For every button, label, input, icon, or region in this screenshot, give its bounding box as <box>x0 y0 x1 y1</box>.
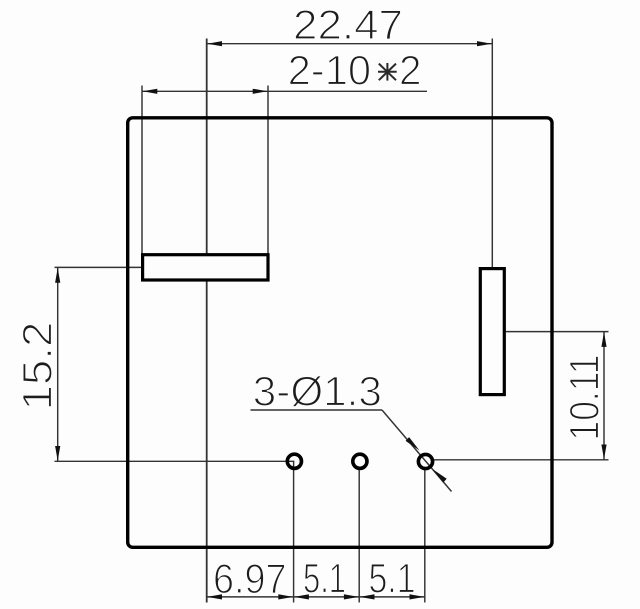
svg-text:2-10: 2-10 <box>288 47 372 94</box>
arrow 22.47 left <box>207 41 222 46</box>
dimension line 10.11 vertical <box>603 332 605 460</box>
svg-text:2: 2 <box>399 47 422 94</box>
extension line right of 22.47 <box>491 39 493 269</box>
arrow 22.47 right <box>477 41 492 46</box>
arrow 5.1b right <box>410 594 425 599</box>
right slot 2x10 <box>480 269 504 395</box>
dimension line 15.2 vertical <box>57 267 59 461</box>
leader diagonal through hole 3 <box>382 410 452 492</box>
extension line below hole 3 <box>424 470 426 603</box>
left slot 10x2 <box>143 255 268 280</box>
arrowheads <box>55 41 607 599</box>
hole 2 <box>353 454 367 468</box>
arrow 5.1b left <box>360 594 375 599</box>
svg-text:6.97: 6.97 <box>213 555 287 602</box>
arrow 15.2 bottom <box>55 446 60 461</box>
bottom dimension line 6.97 / 5.1 / 5.1 <box>207 596 425 598</box>
dimension line 22.47 <box>207 43 493 45</box>
extension line 15.2 top <box>55 266 143 268</box>
extension line 15.2 bottom / hole row line <box>55 460 295 462</box>
extension line 10.11 top <box>504 331 608 333</box>
arrow 15.2 top <box>55 268 60 283</box>
body outline <box>128 118 552 548</box>
arrow 6.97 right <box>278 594 293 599</box>
extension line below hole 1 <box>293 461 295 602</box>
arrow 5.1a right <box>344 594 359 599</box>
extension line 10.11 bottom <box>434 459 609 461</box>
asterisk star in 2-10*2 <box>378 63 397 81</box>
hole 3 <box>418 454 432 468</box>
svg-text:15.2: 15.2 <box>14 322 61 411</box>
arrow 10.11 top <box>601 332 606 347</box>
svg-text:10.11: 10.11 <box>561 355 608 441</box>
svg-text:3-Ø1.3: 3-Ø1.3 <box>253 368 382 415</box>
svg-text:5.1: 5.1 <box>303 554 346 601</box>
datum centerline x=206.7 <box>206 39 208 603</box>
svg-text:5.1: 5.1 <box>369 554 416 601</box>
svg-text:22.47: 22.47 <box>293 1 403 48</box>
extension line left slot right <box>267 86 269 255</box>
arrow 2-10x2 left <box>143 89 158 94</box>
leader underline 3-phi1.3 <box>251 409 383 411</box>
dimension line 2-10*2 with underline extension <box>142 90 427 92</box>
arrow 2-10x2 right <box>253 89 268 94</box>
extension line left slot left <box>141 86 143 255</box>
arrow 10.11 bottom <box>601 445 606 460</box>
arrow leader at hole 3 upper <box>406 437 420 450</box>
arrow 6.97 left <box>207 594 222 599</box>
extension line below hole 2 <box>358 469 360 603</box>
hole 1 <box>287 454 301 468</box>
arrow leader at hole 3 lower <box>433 469 447 482</box>
arrow 5.1a left <box>294 594 309 599</box>
